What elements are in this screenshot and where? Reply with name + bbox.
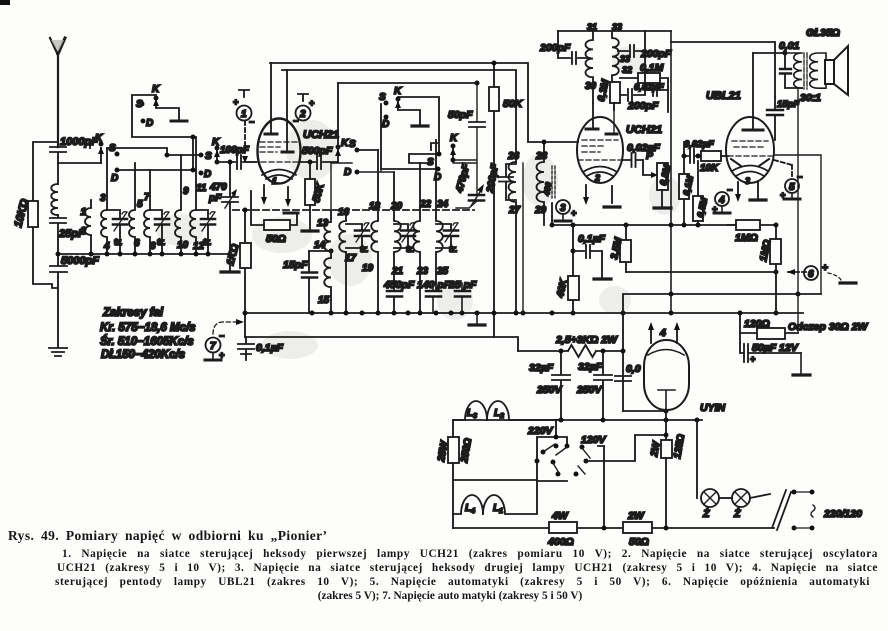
- wire selector box: [132, 95, 193, 137]
- coil 18-19: [371, 150, 378, 313]
- coil 1-2: [85, 200, 91, 254]
- junctions on bus 225: [550, 223, 555, 228]
- antenna A: [50, 38, 58, 147]
- resistor 0.5M-b: [697, 161, 699, 196]
- ground tube2 cathode: [604, 205, 620, 208]
- trimmer tr3: [436, 224, 451, 248]
- lamp Z1: [696, 420, 698, 498]
- wire K-S box: [398, 97, 439, 163]
- ground tube3: [750, 198, 766, 201]
- wire bridge 14-15: [309, 250, 331, 252]
- coil L2: [487, 401, 561, 420]
- coil 31-30 osc: [586, 31, 594, 103]
- switch K1: [100, 148, 102, 163]
- tube UCH21 no.2 envelope: [577, 117, 623, 183]
- capacitor 50pF: [469, 122, 485, 127]
- label 220/120: [811, 505, 815, 517]
- coil 7-8 with trimmer: [144, 170, 150, 254]
- resistor 50K-2: [493, 63, 495, 337]
- coil 13-14 osc grid: [324, 210, 331, 258]
- capacitor 15pF-2: [774, 97, 776, 140]
- meter 1: [239, 90, 249, 97]
- resistor 2.5+3K zigzag: [518, 345, 623, 357]
- trimmer if dashed 400: [552, 166, 555, 198]
- coil 33-32 osc: [612, 31, 619, 82]
- node S left: [115, 152, 120, 157]
- capacitor 0.1uF-c: [238, 337, 254, 360]
- resistor 10K: [701, 151, 721, 161]
- node D right: [199, 171, 204, 176]
- speaker: [825, 60, 834, 84]
- tube2 cathode arc: [583, 167, 617, 177]
- capacitor 25pF-2: [455, 291, 470, 297]
- potentiometer 0.8M: [657, 163, 668, 190]
- switch K5 top: [396, 97, 401, 102]
- capacitor 25pF: [50, 215, 66, 254]
- node S mid-left: [355, 148, 360, 153]
- tube2 grids dashed: [578, 140, 622, 160]
- capacitor 100pF: [217, 155, 256, 169]
- resistor 40K: [572, 225, 574, 313]
- wire S mid line: [357, 149, 378, 151]
- node S: [140, 102, 145, 107]
- wire plate line: [753, 52, 785, 54]
- coil 3-4 with trimmer: [101, 148, 107, 254]
- wire 120V drop: [598, 446, 604, 528]
- tube UCH21 no.1 envelope: [258, 119, 301, 184]
- lamp Z2: [719, 497, 732, 499]
- tube1 grids dashed: [253, 142, 303, 162]
- coil 20-21: [394, 172, 401, 290]
- variable capacitor 470pF osc: [469, 195, 484, 201]
- wire osc grid riser: [331, 163, 352, 210]
- resistor 25W 250R: [452, 420, 454, 528]
- meter 5: [774, 160, 792, 178]
- capacitor 32uF-1: [552, 351, 570, 420]
- tube1 heater arrows: [264, 185, 288, 201]
- wire bus 313 main: [245, 312, 803, 314]
- junctions on main bus 313: [243, 311, 248, 316]
- wire UYIN cathode: [665, 410, 667, 440]
- wire grid2 entry: [577, 141, 579, 143]
- junctions on tuning bus: [56, 252, 61, 257]
- transformer primary: [785, 53, 802, 88]
- wire osc box top: [558, 30, 671, 32]
- probe dashed arrow: [213, 322, 236, 334]
- coil 16-17: [339, 212, 346, 313]
- node D mid-left: [355, 170, 360, 175]
- capacitor 200pF if: [499, 164, 516, 200]
- trimmer tr1: [346, 224, 362, 248]
- wire AGC dashed: [233, 209, 474, 211]
- wire bus 294: [623, 294, 821, 411]
- trimmer tr2: [394, 224, 408, 248]
- ground bus313: [476, 313, 478, 324]
- coil L4: [453, 495, 483, 514]
- capacitor 50uF 12V: [740, 333, 801, 362]
- transformer secondary: [810, 53, 826, 88]
- capacitor 140pF: [426, 291, 441, 297]
- coil 9-10: [175, 155, 181, 254]
- tube1 anode bar: [265, 133, 277, 136]
- capacitor 0.01: [785, 53, 802, 88]
- tube2 anode lead: [592, 103, 594, 129]
- node D top: [384, 115, 389, 120]
- tube3 grids dashed: [728, 141, 772, 156]
- resistor 2W 50R: [623, 522, 652, 533]
- wire S line: [107, 148, 201, 155]
- capacitor 500pF: [300, 155, 338, 169]
- ground screen: [302, 229, 318, 232]
- capacitor 450pF: [387, 291, 402, 297]
- coil 22-23: [413, 163, 420, 313]
- ground K5: [412, 124, 428, 127]
- ground meter6: [840, 281, 856, 284]
- meter 6: [788, 271, 806, 273]
- UYIN anode arrows: [651, 328, 677, 343]
- resistor 1M vertical: [775, 225, 777, 313]
- ground selector: [171, 120, 187, 123]
- meter probe dashed to grid: [244, 121, 246, 156]
- meter 7: [206, 338, 221, 353]
- wire to band switch K1: [58, 162, 101, 164]
- wire avc 272: [626, 271, 776, 273]
- resistor 4W 400R: [549, 522, 577, 533]
- wire bus drop to ground: [229, 254, 231, 270]
- tube3 leads down: [738, 181, 758, 198]
- wire anode riser: [270, 63, 272, 134]
- resistor 1KOhm: [244, 210, 246, 337]
- wire D mid line: [357, 169, 394, 172]
- capacitor 0.1uF-b: [573, 245, 602, 277]
- wire inner bus screen: [282, 70, 516, 162]
- tube UBL21 envelope: [726, 117, 774, 183]
- resistor 50K screen: [309, 162, 311, 230]
- transformer core: [804, 53, 807, 89]
- resistor 0.1M-b: [683, 156, 685, 225]
- meter 2: [298, 94, 308, 101]
- resistor 120R: [740, 313, 798, 333]
- capacitor 0.02uF g3: [684, 142, 701, 163]
- ground antenna: [49, 348, 67, 356]
- wire D right run: [381, 104, 438, 169]
- capacitor 1000pF: [50, 147, 66, 184]
- resistor 0.3M: [612, 82, 614, 110]
- coil 26-27: [509, 162, 517, 313]
- coil 15: [324, 258, 331, 313]
- tube2 anode bar: [586, 128, 598, 131]
- scan corner mark: [0, 0, 10, 5]
- resistor 3.5M: [625, 225, 627, 272]
- wire bus 337: [245, 337, 518, 351]
- wire D line: [117, 137, 193, 170]
- wire B+ line: [671, 42, 775, 97]
- capacitor 15pF: [308, 251, 310, 313]
- resistor 10KOhm: [33, 142, 58, 288]
- tube2 screen lead: [613, 103, 615, 134]
- junctions on heater bus: [559, 418, 564, 423]
- meter 4: [715, 192, 729, 206]
- tube3 anode lead: [752, 53, 754, 130]
- node D: [141, 119, 146, 124]
- capacitor 200pF osc-left: [558, 31, 590, 64]
- wire K6 to 50pF drop: [453, 83, 477, 194]
- coil 11-12 with trimmer: [190, 137, 196, 254]
- resistor 2W 125R: [661, 440, 672, 458]
- tube3 anode bar: [743, 129, 763, 132]
- wire k6 drop: [522, 163, 524, 313]
- coil 5-6: [129, 163, 135, 254]
- ground 50uF: [800, 353, 802, 374]
- coil antenna primary: [51, 184, 58, 215]
- wire heater bus 420: [453, 419, 702, 421]
- wire grid entry: [245, 161, 256, 163]
- capacitor 5000pF: [50, 254, 67, 347]
- wire tuning bus: [58, 253, 230, 255]
- wire third bus: [338, 82, 477, 84]
- tube1 screen bar: [282, 151, 293, 154]
- switch K2: [154, 96, 159, 101]
- trimmer 470pF gang: [222, 162, 238, 254]
- tube3 diode plates: [731, 159, 769, 166]
- wire diode tap: [774, 155, 821, 294]
- wire screen riser: [286, 70, 288, 152]
- wire bottom bus: [453, 527, 774, 529]
- coil 24-25: [436, 140, 443, 290]
- capacitor 200pF-3: [618, 51, 645, 101]
- tube1 cathode arc: [262, 170, 296, 180]
- wire bus 225: [552, 203, 736, 225]
- wire outer bus anode: [270, 63, 578, 142]
- wire osc right drop: [670, 31, 672, 313]
- coil L1: [483, 481, 537, 514]
- resistor 0.1M: [620, 78, 668, 112]
- mains switch: [750, 490, 791, 530]
- ground bus: [221, 270, 239, 273]
- capacitor 32uF-2: [594, 351, 612, 420]
- ground 0.1uF: [594, 277, 611, 280]
- capacitor 0.05: [615, 376, 666, 411]
- capacitor 0.02uF P: [622, 153, 643, 167]
- tube UYIN rectifier: [644, 340, 689, 410]
- capacitor 0.02uF osc: [645, 84, 668, 96]
- resistor 1M horizontal: [728, 224, 776, 226]
- ground pot: [654, 206, 671, 209]
- tube3 cathode arcs: [732, 166, 768, 177]
- coil L3: [453, 401, 487, 420]
- meter 3: [556, 200, 570, 214]
- wire secondary down: [797, 88, 799, 333]
- cathode bar: [284, 212, 298, 215]
- switch K4: [336, 145, 341, 150]
- resistor 50Ohm cathode: [251, 191, 297, 225]
- tube2 heater arrows: [586, 185, 612, 203]
- coil 28-29: [537, 142, 545, 225]
- capacitor 200pF osc-right: [618, 31, 645, 57]
- node S top: [384, 101, 389, 106]
